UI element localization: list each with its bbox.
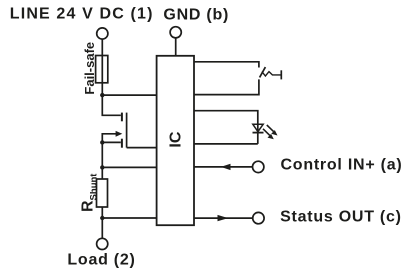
- wire LINE terminal to node A: [101, 39, 103, 95]
- node C junction dot: [100, 165, 104, 169]
- wire IC to Control terminal: [194, 166, 253, 168]
- wire IC to Status terminal: [194, 217, 253, 219]
- wire LED cathode to IC: [194, 143, 258, 145]
- wire node B to node C: [101, 142, 103, 167]
- terminal circle Control IN+ (a): [253, 161, 264, 172]
- op-amp-IC box U1: [157, 56, 194, 225]
- LED D1 emission arrow 2: [263, 129, 270, 136]
- thermal switch S1 blade: [260, 67, 266, 77]
- thermal switch S1 actuator squiggle: [262, 72, 281, 76]
- transistor Q1 channel bottom bar: [121, 139, 123, 148]
- node A junction dot: [100, 93, 104, 97]
- wire GND terminal to IC top: [175, 38, 177, 56]
- svg-text:Status OUT (c): Status OUT (c): [280, 208, 402, 225]
- thermal switch S1 contact bar: [280, 70, 282, 79]
- LED D1 triangle: [253, 124, 263, 132]
- transistor Q1 gate lead to IC: [127, 147, 157, 149]
- svg-text:Fail-safe: Fail-safe: [82, 42, 97, 95]
- transistor Q1 channel top bar: [121, 113, 123, 122]
- transistor Q1 drain lead: [102, 95, 121, 115]
- fuse F1 fail-safe: [96, 56, 108, 83]
- node D junction dot: [100, 216, 104, 220]
- resistor RShunt: [97, 179, 108, 207]
- wire resistor to node D: [101, 207, 103, 218]
- svg-text:GND (b): GND (b): [163, 7, 229, 24]
- arrowhead control direction into IC: [221, 164, 231, 170]
- svg-text:LINE 24 V DC (1): LINE 24 V DC (1): [10, 6, 154, 23]
- terminal circle LINE (1): [97, 28, 108, 39]
- wire node C to resistor RShunt: [101, 167, 103, 179]
- LED D1 emission arrow 1: [267, 125, 274, 132]
- transistor Q1 body arrow: [102, 134, 116, 143]
- arrowhead status direction out of IC: [218, 215, 229, 221]
- LED D1 cathode bar: [253, 132, 264, 134]
- wire node D to Load terminal: [101, 218, 103, 238]
- transistor Q1 source lead: [102, 141, 121, 143]
- node B junction dot: [100, 140, 104, 144]
- terminal circle Status OUT (c): [253, 212, 264, 223]
- wire node A to IC left supply pin: [102, 94, 156, 96]
- transistor Q1 gate line: [126, 113, 128, 148]
- terminal circle GND (b): [170, 27, 181, 38]
- svg-text:IC: IC: [168, 131, 185, 147]
- wire IC to LED anode: [194, 111, 258, 144]
- svg-text:Load (2): Load (2): [67, 252, 135, 269]
- wire node C to IC left sense+ pin: [102, 166, 156, 168]
- wire IC to thermal switch top contact: [194, 62, 259, 68]
- terminal circle Load (2): [97, 238, 108, 249]
- wire thermal switch bottom contact to IC: [194, 79, 259, 94]
- wire node D to IC left sense- pin: [102, 217, 156, 219]
- svg-text:Control IN+ (a): Control IN+ (a): [281, 157, 403, 174]
